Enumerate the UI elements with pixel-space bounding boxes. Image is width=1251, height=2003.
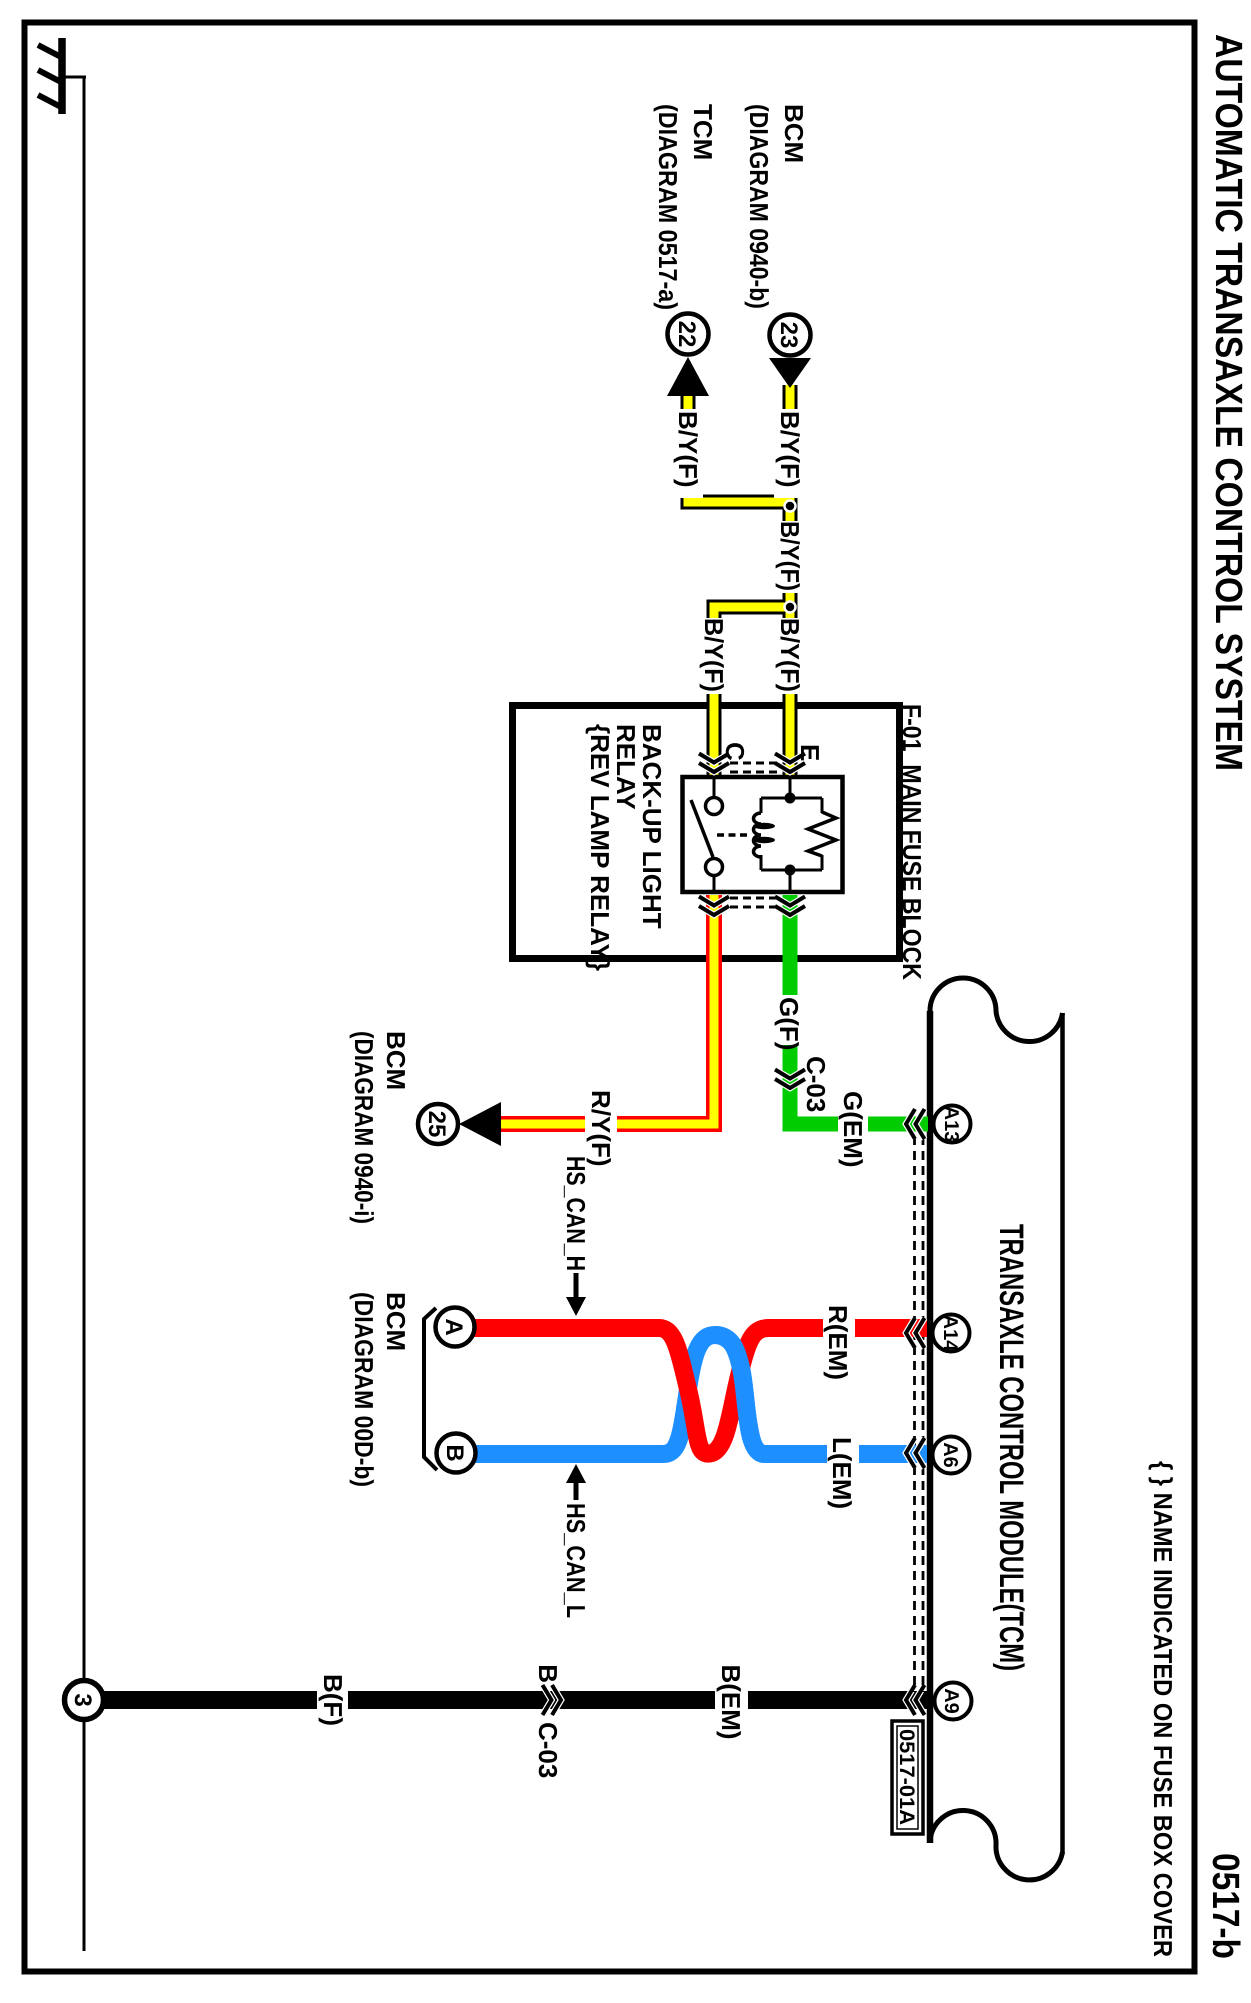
connector circle 22 [668,314,709,355]
svg-text:E: E [795,744,825,761]
arrow HS_CAN_H [566,1273,586,1316]
arrow from wire into circle 22 [667,357,709,396]
pin A13 chevrons [906,1109,925,1139]
svg-text:C-03: C-03 [533,1722,563,1778]
svg-text:B/Y(F): B/Y(F) [775,521,805,591]
connector circle B [437,1434,476,1473]
junction dot 2 [785,602,796,613]
svg-text:L(EM): L(EM) [827,1437,857,1509]
svg-text:A: A [440,1318,467,1335]
connector circle 25 [418,1104,458,1144]
label B(EM) on wire B [715,1664,748,1739]
pin A14 circle [933,1315,970,1353]
label 0517-01A box [892,1721,923,1834]
connector circle 23 [770,315,811,356]
relay output connector dashed lines [730,898,777,907]
svg-text:C: C [720,742,750,761]
connector C-03 chevrons on wire B [543,1685,562,1715]
label B(F) on wire B [317,1668,348,1732]
fuse block F-01 box [513,706,900,959]
ground [38,38,86,114]
wire R (red) CAN high from circle A to TCM A14 [474,1328,927,1454]
svg-text:F-01 MAIN FUSE BLOCK: F-01 MAIN FUSE BLOCK [897,704,927,980]
relay coil-resistor parallel loop [761,779,822,890]
relay coil [753,813,775,857]
label L(EM) on wire L [827,1435,859,1509]
svg-text:B(F): B(F) [318,1674,348,1726]
svg-text:A13: A13 [940,1106,962,1143]
relay U1 back-up light relay box [683,777,843,892]
TCM box right torn-edge squiggle [930,1810,1063,1879]
wire B/Y from circle 22 casing [688,396,790,502]
svg-text:AUTOMATIC TRANSAXLE CONTROL SY: AUTOMATIC TRANSAXLE CONTROL SYSTEM [1207,34,1249,771]
pin A6 circle [933,1437,970,1474]
connector circle A [436,1308,475,1347]
label BCM (DIAGRAM 00D-b) [349,1292,411,1487]
TCM connector dashed face lines [915,1136,924,1692]
relay output pin chevrons (coil side) [775,897,805,916]
relay pin E chevrons [775,754,805,773]
label G(F) on wire G [774,995,804,1050]
connector C-03 chevrons on wire G [775,1070,805,1089]
pin A13 circle [934,1106,971,1143]
relay pin C chevrons [699,754,729,773]
svg-text:{REV LAMP RELAY}: {REV LAMP RELAY} [585,724,615,971]
wire B (black) from junction 3 to TCM A9 [101,1691,927,1709]
svg-text:{ } NAME INDICATED ON FUSE BOX: { } NAME INDICATED ON FUSE BOX COVER [1148,1461,1178,1957]
svg-text:0517-01A: 0517-01A [895,1729,918,1825]
wire B/Y branch to pin C casing [714,607,790,779]
label BCM (DIAGRAM 0940-i) [349,1031,411,1224]
wire B/Y from circle 23 to pin E core [786,385,795,779]
label B/Y(F) on wire to pin E [774,618,805,694]
TCM box bottom connector line [927,1011,934,1843]
svg-text:23: 23 [775,322,802,349]
label B/Y(F) on branch wire [698,618,729,694]
pin A6 chevrons [906,1438,925,1468]
svg-text:G(EM): G(EM) [838,1091,868,1168]
svg-text:A6: A6 [939,1442,961,1468]
svg-text:(DIAGRAM 0517-a): (DIAGRAM 0517-a) [653,104,683,310]
label B/Y(F) on wire 23 [774,521,805,593]
svg-text:(DIAGRAM 00D-b): (DIAGRAM 00D-b) [349,1292,379,1487]
junction dot 1 [785,501,796,512]
pin A9 chevrons [906,1685,925,1715]
wire B/Y from circle 23 to pin E casing [783,385,798,779]
wire G green from relay to TCM A13 [790,895,928,1124]
svg-text:B: B [441,1444,468,1461]
svg-text:C-03: C-03 [801,1056,831,1112]
svg-text:0517-b: 0517-b [1204,1853,1246,1959]
relay resistor zigzag [808,812,836,856]
wire L overlay at upper crossing [716,1335,765,1454]
label B/Y(F) on wire 22 [672,409,703,498]
bracket grouping A and B [424,1308,437,1470]
svg-text:B: B [533,1664,563,1683]
svg-text:B/Y(F): B/Y(F) [673,411,703,488]
svg-text:3: 3 [69,1693,96,1706]
label G(EM) on wire G [838,1089,868,1168]
wire L (blue) CAN low from circle B to TCM A6 [475,1335,927,1454]
svg-text:BCM: BCM [779,104,809,163]
relay actuator dashed link [717,833,747,837]
svg-text:B/Y(F): B/Y(F) [775,411,805,488]
svg-text:HS_CAN_H: HS_CAN_H [561,1156,591,1271]
svg-text:TCM: TCM [688,104,718,160]
svg-text:(DIAGRAM 0940-i): (DIAGRAM 0940-i) [349,1031,379,1224]
wire B/Y from circle 22 core [688,396,793,502]
svg-text:G(F): G(F) [774,997,804,1050]
arrow HS_CAN_L [566,1464,586,1500]
arrow from circle 23 into wire [769,358,811,388]
relay input connector dashed lines [730,763,777,772]
svg-text:22: 22 [673,321,700,348]
svg-text:BCM: BCM [381,1292,411,1351]
label R(EM) on wire R [823,1303,855,1380]
wire R/Y red part from relay to circle 25 [499,895,714,1124]
label B/Y(F) on wire 23 first [774,409,805,498]
pin A14 chevrons [906,1318,925,1348]
svg-text:BCM: BCM [381,1031,411,1090]
svg-text:(DIAGRAM 0940-b): (DIAGRAM 0940-b) [744,104,774,309]
wire B/Y branch to pin C core [714,607,792,779]
arrow into circle 25 [459,1102,501,1146]
pin A9 circle [935,1683,972,1720]
svg-text:B/Y(F): B/Y(F) [699,618,729,692]
svg-text:B/Y(F): B/Y(F) [775,618,805,692]
node 3 junction circle [65,1681,104,1720]
svg-text:B(EM): B(EM) [716,1664,746,1739]
relay output pin chevrons (switch side) [699,897,729,916]
svg-text:A14: A14 [939,1315,961,1353]
svg-text:TRANSAXLE CONTROL MODULE(TCM): TRANSAXLE CONTROL MODULE(TCM) [992,1224,1030,1671]
label R/Y(F) on wire R/Y [585,1088,617,1167]
relay switch [691,779,723,890]
svg-text:25: 25 [423,1111,450,1138]
svg-text:R(EM): R(EM) [823,1305,853,1380]
svg-text:A9: A9 [940,1688,962,1714]
TCM box top edge [1060,1013,1065,1854]
wire ground bus [83,77,86,1951]
svg-text:HS_CAN_L: HS_CAN_L [561,1503,591,1618]
wire R/Y yellow stripe [499,895,714,1124]
TCM box left torn-edge squiggle [930,978,1063,1042]
